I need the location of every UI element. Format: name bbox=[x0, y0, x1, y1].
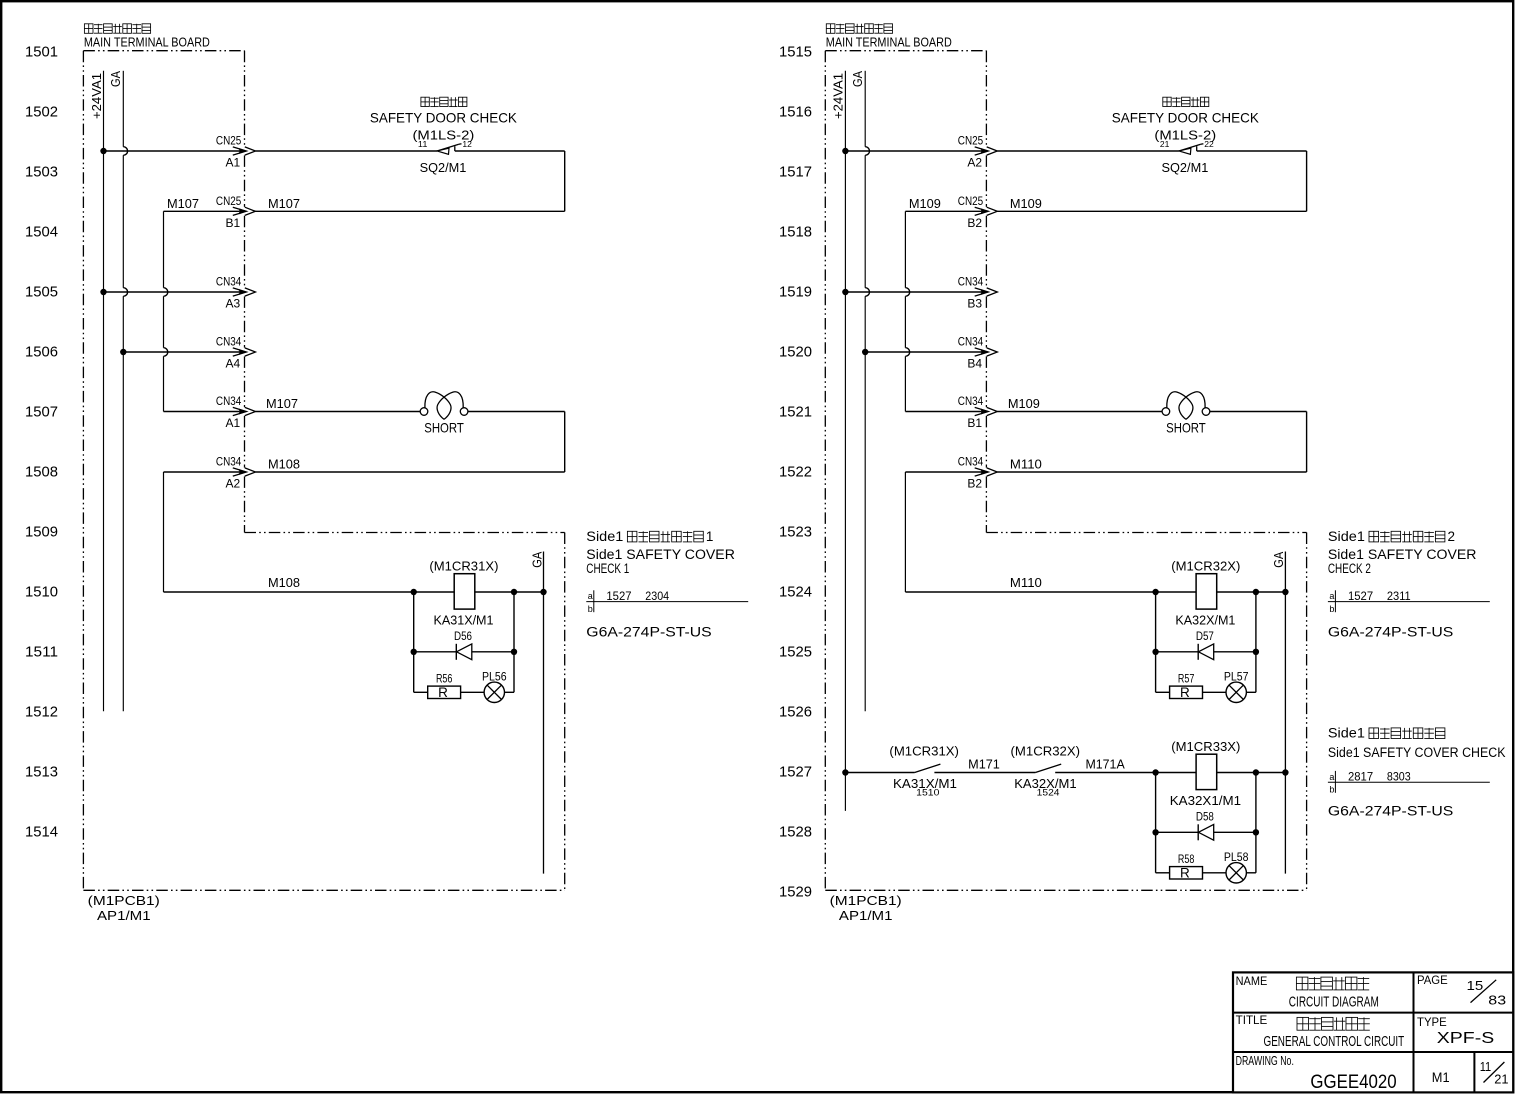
junction dots M1CR31X bbox=[411, 589, 417, 595]
svg-text:1524: 1524 bbox=[779, 584, 812, 601]
wire resistor row bbox=[1156, 691, 1170, 693]
ground bus GA bbox=[864, 71, 866, 147]
svg-text:a: a bbox=[1329, 591, 1334, 601]
svg-text:1528: 1528 bbox=[779, 824, 812, 841]
svg-text:M108: M108 bbox=[268, 575, 300, 590]
svg-text:KA32X1/M1: KA32X1/M1 bbox=[1170, 793, 1241, 808]
power bus +24VA1 bbox=[103, 71, 105, 712]
svg-text:KA32X/M1: KA32X/M1 bbox=[1175, 612, 1235, 627]
svg-text:R57: R57 bbox=[1178, 673, 1195, 685]
svg-text:2311: 2311 bbox=[1387, 589, 1411, 603]
wire diode row D58 bbox=[1156, 831, 1256, 833]
svg-text:SQ2/M1: SQ2/M1 bbox=[420, 160, 467, 175]
svg-text:R58: R58 bbox=[1178, 854, 1195, 866]
svg-text:b: b bbox=[1329, 604, 1334, 614]
wire row 1522 M110 bbox=[997, 471, 1306, 473]
power bus +24VA1 bbox=[844, 71, 846, 811]
svg-text:M171A: M171A bbox=[1086, 756, 1126, 771]
svg-text:MAIN TERMINAL BOARD: MAIN TERMINAL BOARD bbox=[84, 35, 210, 49]
svg-text:1: 1 bbox=[706, 529, 714, 544]
svg-text:1512: 1512 bbox=[25, 704, 58, 721]
svg-text:M108: M108 bbox=[268, 457, 300, 472]
svg-text:A4: A4 bbox=[226, 357, 241, 371]
svg-text:CN34: CN34 bbox=[216, 455, 242, 469]
svg-text:(M1CR31X): (M1CR31X) bbox=[889, 744, 959, 759]
svg-text:CN25: CN25 bbox=[958, 194, 984, 208]
wire vertical to relay row bbox=[163, 472, 165, 592]
svg-text:M107: M107 bbox=[266, 396, 298, 411]
svg-text:D58: D58 bbox=[1196, 809, 1214, 823]
svg-text:R: R bbox=[1180, 866, 1190, 881]
svg-text:2817: 2817 bbox=[1348, 770, 1373, 784]
svg-text:PL56: PL56 bbox=[482, 670, 507, 684]
wire loop right vertical 2 bbox=[564, 412, 566, 473]
svg-text:M110: M110 bbox=[1010, 457, 1042, 472]
svg-text:M171: M171 bbox=[968, 756, 1000, 771]
svg-text:NAME: NAME bbox=[1236, 976, 1268, 988]
wire right branch bbox=[513, 592, 515, 692]
svg-text:M109: M109 bbox=[909, 196, 941, 211]
svg-text:GGEE4020: GGEE4020 bbox=[1310, 1072, 1396, 1093]
wire vertical loop left bbox=[163, 211, 165, 287]
svg-text:1515: 1515 bbox=[779, 44, 812, 61]
dashed board border bbox=[83, 50, 244, 52]
svg-text:83: 83 bbox=[1488, 993, 1506, 1008]
svg-text:D56: D56 bbox=[454, 629, 472, 643]
svg-text:2304: 2304 bbox=[645, 589, 669, 603]
wire row 1527 bbox=[842, 769, 848, 775]
svg-text:B3: B3 bbox=[967, 297, 982, 311]
wire right branch bbox=[1255, 592, 1257, 692]
svg-text:8303: 8303 bbox=[1387, 770, 1411, 784]
svg-text:b: b bbox=[1329, 785, 1334, 795]
wire row return M109 bbox=[997, 210, 1306, 212]
svg-text:M107: M107 bbox=[167, 196, 199, 211]
svg-text:(M1CR33X): (M1CR33X) bbox=[1171, 739, 1240, 754]
svg-text:b: b bbox=[588, 604, 593, 614]
svg-text:SHORT: SHORT bbox=[1166, 420, 1206, 436]
title block bbox=[1233, 972, 1513, 1092]
svg-text:M109: M109 bbox=[1008, 396, 1040, 411]
svg-text:1509: 1509 bbox=[25, 524, 58, 541]
svg-text:GA: GA bbox=[108, 71, 123, 87]
limit switch SQ2/M1 bbox=[437, 148, 449, 154]
svg-text:AP1/M1: AP1/M1 bbox=[97, 908, 151, 923]
svg-text:G6A-274P-ST-US: G6A-274P-ST-US bbox=[1328, 625, 1453, 640]
junction dots M1CR32X bbox=[1152, 589, 1158, 595]
svg-text:(M1PCB1): (M1PCB1) bbox=[830, 893, 902, 908]
svg-text:TITLE: TITLE bbox=[1236, 1015, 1268, 1027]
svg-text:G6A-274P-ST-US: G6A-274P-ST-US bbox=[586, 625, 711, 640]
GA return vertical bbox=[1284, 552, 1286, 874]
svg-text:(M1LS-2): (M1LS-2) bbox=[413, 127, 475, 142]
svg-text:R56: R56 bbox=[436, 673, 453, 685]
relay coil M1CR31X KA31X/M1 bbox=[454, 574, 475, 609]
svg-text:1523: 1523 bbox=[779, 524, 812, 541]
svg-text:1511: 1511 bbox=[25, 644, 58, 661]
svg-text:Side1: Side1 bbox=[586, 529, 623, 544]
svg-text:CHECK 2: CHECK 2 bbox=[1328, 561, 1371, 576]
svg-text:15: 15 bbox=[1467, 978, 1484, 993]
svg-text:R: R bbox=[1180, 685, 1190, 700]
svg-text:A1: A1 bbox=[226, 416, 241, 430]
svg-text:1502: 1502 bbox=[25, 104, 58, 121]
wire row 1517 safety door bbox=[842, 148, 848, 154]
svg-text:1501: 1501 bbox=[25, 44, 58, 61]
contact KA32X/M1 (M1CR32X) bbox=[1035, 764, 1061, 772]
svg-text:CN34: CN34 bbox=[216, 275, 242, 289]
svg-text:B1: B1 bbox=[226, 216, 241, 230]
wire loop right vertical 2 bbox=[1306, 412, 1308, 473]
svg-text:1521: 1521 bbox=[779, 404, 812, 421]
svg-text:B4: B4 bbox=[967, 357, 982, 371]
svg-text:1522: 1522 bbox=[779, 464, 812, 481]
contact KA31X/M1 (M1CR31X) bbox=[915, 764, 941, 772]
svg-text:(M1CR31X): (M1CR31X) bbox=[429, 559, 498, 574]
limit switch SQ2/M1 bbox=[1179, 148, 1191, 154]
header label (jp) 安全扉確認 bbox=[421, 97, 429, 106]
relay coil M1CR33X KA32X1/M1 bbox=[1196, 754, 1217, 789]
wire left branch bbox=[1155, 773, 1157, 873]
svg-text:CN25: CN25 bbox=[216, 134, 242, 148]
wire resistor row bbox=[414, 691, 428, 693]
svg-text:1506: 1506 bbox=[25, 344, 58, 361]
svg-text:Side1 SAFETY COVER: Side1 SAFETY COVER bbox=[586, 547, 735, 562]
svg-text:(M1PCB1): (M1PCB1) bbox=[88, 893, 160, 908]
ground bus GA bbox=[122, 71, 124, 147]
junction dots M1CR33X bbox=[1152, 769, 1158, 775]
wire coil row M1CR31X bbox=[414, 591, 455, 593]
header label (jp) 安全扉確認 bbox=[1163, 97, 1171, 106]
pilot lamp PL57 bbox=[1226, 682, 1246, 702]
svg-text:1508: 1508 bbox=[25, 464, 58, 481]
svg-text:B1: B1 bbox=[967, 416, 982, 430]
svg-text:M1: M1 bbox=[1432, 1069, 1450, 1085]
svg-text:TYPE: TYPE bbox=[1417, 1017, 1447, 1029]
svg-text:1525: 1525 bbox=[779, 644, 812, 661]
wire row 1507 M107 bbox=[164, 411, 240, 413]
svg-text:(M1LS-2): (M1LS-2) bbox=[1154, 127, 1216, 142]
GA return vertical bbox=[543, 552, 545, 874]
wire vertical loop left bbox=[904, 211, 906, 287]
jumper SHORT bbox=[420, 408, 428, 416]
diode D56 bbox=[455, 644, 457, 660]
wire loop right vertical bbox=[1306, 151, 1308, 211]
pilot lamp PL56 bbox=[484, 682, 504, 702]
svg-text:XPF-S: XPF-S bbox=[1437, 1030, 1494, 1047]
board region label (jp) メイン中継基板 bbox=[826, 24, 835, 34]
diode D57 bbox=[1197, 644, 1199, 660]
svg-text:CN34: CN34 bbox=[216, 394, 242, 408]
svg-text:+24VA1: +24VA1 bbox=[89, 73, 104, 119]
wire coil row M1CR32X bbox=[1156, 591, 1197, 593]
wire row return M107 bbox=[255, 210, 564, 212]
wire row 1510 M108 bbox=[164, 591, 414, 593]
svg-text:R: R bbox=[438, 685, 448, 700]
svg-text:1529: 1529 bbox=[779, 884, 812, 901]
wire row 1520 bbox=[862, 349, 868, 355]
svg-text:1505: 1505 bbox=[25, 284, 58, 301]
svg-text:a: a bbox=[588, 591, 593, 601]
svg-text:CN25: CN25 bbox=[958, 134, 984, 148]
wire resistor row bbox=[1156, 872, 1170, 874]
svg-text:1514: 1514 bbox=[25, 824, 58, 841]
svg-text:1516: 1516 bbox=[779, 104, 812, 121]
svg-text:21: 21 bbox=[1494, 1072, 1508, 1087]
svg-text:1517: 1517 bbox=[779, 164, 812, 181]
wire left branch bbox=[413, 592, 415, 692]
wire right branch bbox=[1255, 773, 1257, 873]
wire coil row M1CR33X bbox=[1156, 772, 1197, 774]
wire row 1508 M108 bbox=[255, 471, 564, 473]
svg-text:1518: 1518 bbox=[779, 224, 812, 241]
svg-text:1527: 1527 bbox=[1348, 589, 1373, 603]
wire row 1503 safety door bbox=[100, 148, 106, 154]
svg-text:1513: 1513 bbox=[25, 764, 58, 781]
svg-text:1527: 1527 bbox=[606, 589, 631, 603]
resistor R57 bbox=[1170, 686, 1203, 698]
svg-text:+24VA1: +24VA1 bbox=[831, 73, 846, 119]
svg-text:GA: GA bbox=[850, 71, 865, 87]
wire row 1519 bbox=[842, 289, 848, 295]
svg-text:1510: 1510 bbox=[25, 584, 58, 601]
svg-text:M110: M110 bbox=[1010, 575, 1042, 590]
wire row 1524 M110 bbox=[905, 591, 1155, 593]
svg-text:Side1: Side1 bbox=[1328, 726, 1365, 741]
svg-text:PAGE: PAGE bbox=[1417, 975, 1448, 987]
svg-text:KA31X/M1: KA31X/M1 bbox=[434, 612, 494, 627]
svg-text:MAIN TERMINAL BOARD: MAIN TERMINAL BOARD bbox=[826, 35, 952, 49]
svg-text:Side1 SAFETY COVER: Side1 SAFETY COVER bbox=[1328, 547, 1477, 562]
svg-text:PL57: PL57 bbox=[1224, 670, 1249, 684]
svg-text:1526: 1526 bbox=[779, 704, 812, 721]
svg-text:CN34: CN34 bbox=[958, 394, 984, 408]
svg-text:M107: M107 bbox=[268, 196, 300, 211]
svg-text:SQ2/M1: SQ2/M1 bbox=[1162, 160, 1209, 175]
resistor R56 bbox=[428, 686, 461, 698]
wire diode row D57 bbox=[1156, 651, 1256, 653]
svg-text:G6A-274P-ST-US: G6A-274P-ST-US bbox=[1328, 803, 1453, 818]
svg-text:CN34: CN34 bbox=[958, 335, 984, 349]
svg-text:CN34: CN34 bbox=[216, 335, 242, 349]
wire row 1506 bbox=[120, 349, 126, 355]
wire row 1505 bbox=[100, 289, 106, 295]
svg-text:1507: 1507 bbox=[25, 404, 58, 421]
wire vertical to relay row bbox=[904, 472, 906, 592]
svg-text:GENERAL CONTROL CIRCUIT: GENERAL CONTROL CIRCUIT bbox=[1264, 1033, 1405, 1050]
wire left branch bbox=[1155, 592, 1157, 692]
svg-text:B2: B2 bbox=[967, 216, 982, 230]
svg-text:Side1 SAFETY COVER CHECK: Side1 SAFETY COVER CHECK bbox=[1328, 745, 1506, 760]
relay coil M1CR32X KA32X/M1 bbox=[1196, 574, 1217, 609]
wire row 1521 M109 bbox=[905, 411, 981, 413]
svg-text:(M1CR32X): (M1CR32X) bbox=[1171, 559, 1240, 574]
svg-text:AP1/M1: AP1/M1 bbox=[839, 908, 893, 923]
svg-text:A2: A2 bbox=[967, 156, 982, 170]
svg-text:a: a bbox=[1329, 772, 1334, 782]
svg-text:A1: A1 bbox=[226, 156, 241, 170]
svg-text:1504: 1504 bbox=[25, 224, 58, 241]
svg-text:1519: 1519 bbox=[779, 284, 812, 301]
svg-text:CHECK 1: CHECK 1 bbox=[586, 561, 629, 576]
svg-text:GA: GA bbox=[529, 551, 544, 567]
jumper SHORT bbox=[1162, 408, 1170, 416]
svg-text:CN34: CN34 bbox=[958, 455, 984, 469]
svg-text:CN34: CN34 bbox=[958, 275, 984, 289]
svg-text:11: 11 bbox=[1480, 1059, 1492, 1074]
wire diode row D56 bbox=[414, 651, 514, 653]
svg-text:A2: A2 bbox=[226, 477, 241, 491]
svg-text:CIRCUIT DIAGRAM: CIRCUIT DIAGRAM bbox=[1289, 993, 1379, 1010]
svg-text:CN25: CN25 bbox=[216, 194, 242, 208]
pilot lamp PL58 bbox=[1226, 863, 1246, 883]
svg-text:DRAWING No.: DRAWING No. bbox=[1236, 1053, 1294, 1068]
svg-text:D57: D57 bbox=[1196, 629, 1214, 643]
dashed board border bbox=[825, 50, 986, 52]
svg-text:1524: 1524 bbox=[1037, 788, 1060, 799]
svg-text:SAFETY DOOR CHECK: SAFETY DOOR CHECK bbox=[1112, 109, 1260, 125]
svg-text:1510: 1510 bbox=[916, 788, 939, 799]
svg-text:1527: 1527 bbox=[779, 764, 812, 781]
svg-text:Side1: Side1 bbox=[1328, 529, 1365, 544]
svg-text:SHORT: SHORT bbox=[424, 420, 464, 436]
wire loop right vertical bbox=[564, 151, 566, 211]
svg-text:A3: A3 bbox=[226, 297, 241, 311]
svg-text:GA: GA bbox=[1271, 551, 1286, 567]
board region label (jp) メイン中継基板 bbox=[84, 24, 93, 34]
svg-text:SAFETY DOOR CHECK: SAFETY DOOR CHECK bbox=[370, 109, 518, 125]
svg-text:M109: M109 bbox=[1010, 196, 1042, 211]
svg-text:1520: 1520 bbox=[779, 344, 812, 361]
resistor R58 bbox=[1170, 867, 1203, 879]
svg-text:(M1CR32X): (M1CR32X) bbox=[1011, 744, 1081, 759]
svg-text:1503: 1503 bbox=[25, 164, 58, 181]
svg-text:PL58: PL58 bbox=[1224, 850, 1249, 864]
svg-text:2: 2 bbox=[1448, 529, 1456, 544]
diode D58 bbox=[1197, 824, 1199, 840]
svg-text:B2: B2 bbox=[967, 477, 982, 491]
